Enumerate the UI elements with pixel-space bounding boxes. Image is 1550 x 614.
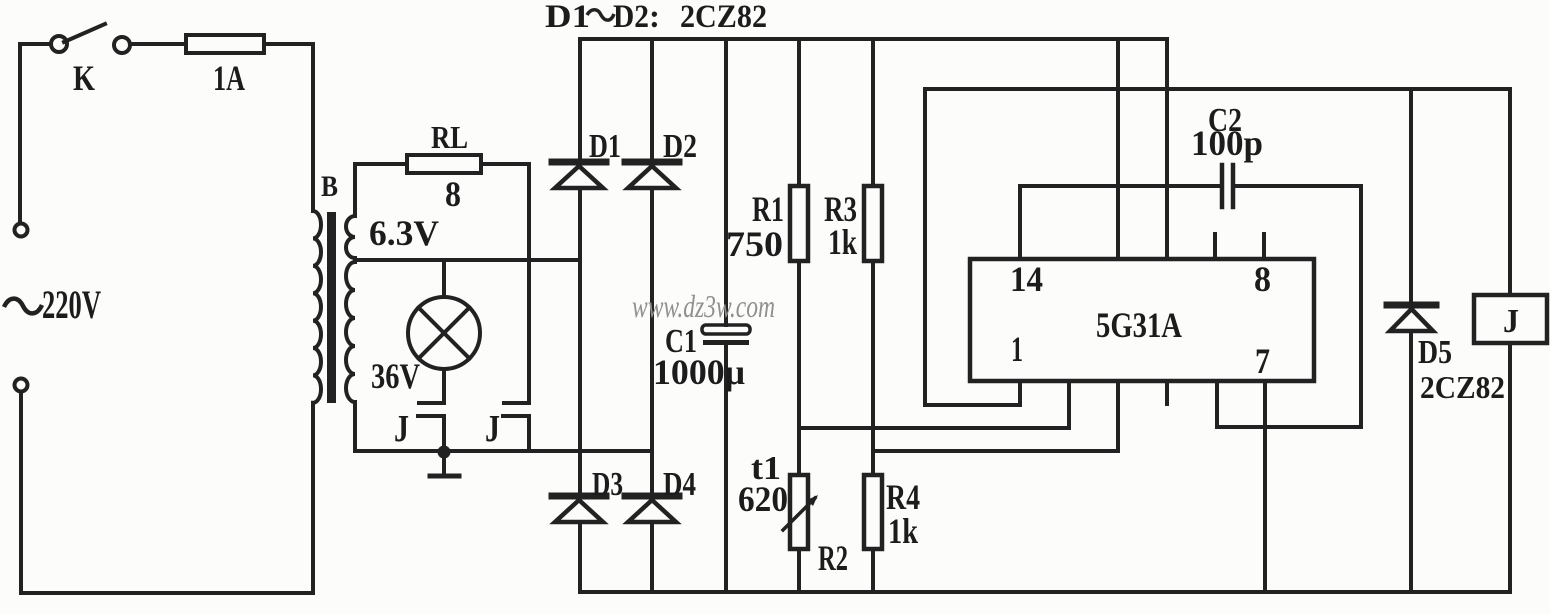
svg-text:8: 8 (1254, 259, 1271, 299)
svg-text:1A: 1A (213, 58, 245, 98)
wire R1-R2 node to IC pin (799, 382, 1069, 428)
svg-text:J: J (1503, 303, 1519, 340)
svg-text:36V: 36V (371, 356, 420, 396)
relay contact J right (503, 403, 529, 451)
pin stub above IC right (1262, 234, 1266, 259)
fuse 1A (186, 35, 264, 53)
svg-text:B: B (321, 170, 338, 203)
svg-text:1: 1 (1011, 329, 1023, 369)
top bus (580, 37, 1167, 41)
capacitor C1 (702, 325, 750, 345)
svg-text:14: 14 (1010, 259, 1043, 299)
svg-text:750: 750 (726, 224, 783, 264)
wire pin14 up (1018, 186, 1022, 259)
svg-text:www.dz3w.com: www.dz3w.com (632, 288, 775, 324)
capacitor C2 (1222, 165, 1233, 207)
wire R3 to R4 (871, 261, 875, 475)
svg-text:J: J (394, 408, 409, 450)
svg-text:J: J (485, 408, 500, 450)
svg-text:100p: 100p (1191, 123, 1263, 163)
terminal circle upper (15, 224, 28, 237)
resistor R1 branch wire (797, 39, 801, 186)
diode D3 (552, 496, 606, 522)
svg-text:5G31A: 5G31A (1096, 305, 1182, 345)
diode D2 branch wire (650, 39, 654, 592)
svg-text:RL: RL (431, 119, 468, 155)
svg-text:R1: R1 (752, 189, 784, 229)
diode D4 (625, 496, 679, 522)
wire 6.3V tap (355, 258, 580, 262)
wire left terminal top (20, 44, 50, 223)
svg-text:K: K (73, 58, 95, 98)
diode D2 (625, 162, 679, 188)
transformer secondary 6.3V winding (346, 216, 355, 258)
svg-text:2CZ82: 2CZ82 (1420, 369, 1505, 405)
wire R4 bottom (871, 549, 875, 592)
svg-text:2CZ82: 2CZ82 (680, 0, 767, 35)
pin stub above IC left (1213, 234, 1217, 259)
svg-text:D5: D5 (1418, 334, 1452, 371)
svg-text:D3: D3 (592, 466, 623, 503)
relay coil J wire (1508, 89, 1512, 592)
switch K (51, 24, 130, 53)
resistor R3 branch wire (871, 39, 875, 186)
relay coil J box (1474, 295, 1547, 343)
capacitor C1 branch wire (724, 39, 728, 325)
svg-text:8: 8 (445, 174, 461, 214)
svg-text:D4: D4 (663, 466, 696, 503)
svg-text:D2: D2 (613, 0, 649, 35)
wire pin7 to bottom bus (1263, 382, 1267, 592)
svg-text:R2: R2 (818, 538, 848, 578)
svg-text::: : (649, 0, 660, 35)
wire R3-R4 node to IC pin (873, 382, 1118, 451)
svg-text:D1: D1 (589, 128, 621, 165)
terminal circle lower (15, 379, 28, 392)
diode D5 (1387, 305, 1436, 331)
svg-text:620: 620 (738, 479, 788, 519)
wire R1 to R2 (797, 261, 801, 475)
ground stub (430, 452, 459, 476)
transformer B primary winding (313, 211, 321, 403)
wire fuse to transformer primary top (264, 44, 313, 211)
wire top bus to IC pin A (1116, 39, 1120, 259)
bottom bus (580, 590, 1510, 594)
resistor R3 (864, 186, 882, 261)
wire R2 bottom (797, 549, 801, 592)
resistor R4 (864, 475, 882, 549)
wire left terminal bottom loop (21, 392, 313, 593)
IC 5G31A (970, 259, 1314, 381)
potentiometer R2 (783, 475, 818, 549)
transformer core (327, 212, 336, 403)
transformer secondary 36V winding (346, 262, 355, 402)
wire secondary bottom (353, 402, 357, 451)
wire top bus to IC pin B (1165, 39, 1169, 259)
label ~220V (4, 299, 42, 314)
diode D5 branch wire (1409, 89, 1413, 592)
wire C2 left segment (1020, 184, 1221, 188)
wire outer loop top (925, 87, 1510, 91)
svg-text:1000μ: 1000μ (653, 352, 745, 392)
svg-text:6.3V: 6.3V (369, 213, 439, 253)
wire switch to fuse (130, 42, 186, 46)
resistor RL (407, 155, 481, 173)
wire secondary top to RL loop (355, 164, 407, 216)
relay contact J left (418, 403, 444, 451)
pin stub below IC (1165, 382, 1169, 404)
wire C2 right segment to IC pin (1217, 186, 1361, 427)
lamp (408, 260, 480, 403)
wire C1 bottom (724, 345, 728, 592)
svg-text:1k: 1k (828, 222, 857, 262)
svg-text:220V: 220V (42, 282, 101, 327)
diode D1 (552, 162, 606, 188)
svg-text:D2: D2 (663, 128, 697, 165)
junction dot (438, 446, 451, 459)
wire RL right side down (481, 164, 529, 402)
svg-text:D1: D1 (545, 0, 590, 35)
diode D1 branch wire (578, 39, 582, 592)
wire AC node bottom horizontal (355, 449, 652, 453)
wire pin1 to outer loop (925, 89, 1020, 405)
svg-text:7: 7 (1255, 341, 1270, 381)
resistor R1 (790, 186, 808, 261)
svg-text:1k: 1k (888, 511, 918, 551)
